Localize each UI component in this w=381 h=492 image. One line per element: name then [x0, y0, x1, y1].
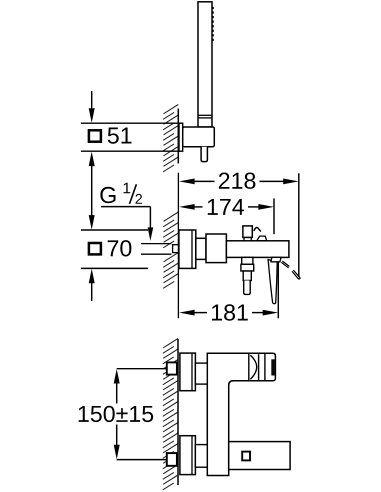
supply pipe in wall — [141, 244, 171, 255]
lever blade (closed position) — [268, 260, 277, 304]
dimension 150±15 stem and arrowheads — [114, 369, 120, 459]
bath spout — [229, 442, 290, 470]
lever pivot knuckle — [271, 257, 281, 261]
dimension 174 line — [194, 206, 260, 208]
G 1/2 leader line with arrow — [101, 207, 153, 241]
dimension text 174 — [208, 199, 244, 215]
dimension 174 extension line — [273, 198, 275, 234]
wall hatching (bottom view) — [163, 339, 178, 490]
dimension 218 line — [194, 180, 285, 182]
lever grip slot (black) — [271, 359, 275, 375]
shower holder bracket — [183, 127, 215, 147]
bottom escutcheon (side) — [180, 436, 196, 475]
top connection nut — [167, 362, 177, 374]
dimension 70: bottom extension line — [81, 267, 148, 269]
dimension 181 line — [194, 312, 264, 314]
wall hatching lower (middle view) — [163, 253, 178, 289]
top escutcheon (side) — [180, 353, 196, 391]
dimension 174 arrowheads — [179, 204, 195, 210]
lever base wedge — [257, 236, 267, 241]
dimension text 181 — [212, 304, 248, 320]
dimension 150±15 leader lines — [117, 369, 167, 460]
open lever segment 2 — [292, 270, 300, 279]
mixer main body (horizontal) — [226, 241, 289, 258]
dimension 70: top extension line — [81, 229, 148, 231]
wall hatching upper (middle view) — [163, 212, 178, 248]
dimension 51: top extension line — [81, 122, 180, 124]
wall face line (top view) — [177, 109, 179, 164]
escutcheon 70 square (side profile) — [179, 230, 196, 268]
wall face / extension line (middle view) — [177, 173, 179, 318]
dimension text 150±15 — [79, 406, 154, 422]
s-union cone — [196, 238, 206, 259]
dimension 181 extension line — [277, 262, 279, 318]
mixer body and top arm silhouette — [207, 353, 275, 475]
valve connection body — [206, 234, 226, 263]
lever internal line — [258, 354, 260, 380]
bottom s-union neck — [195, 445, 207, 468]
dimension 181 arrowheads — [179, 310, 195, 316]
dimension 51: bottom extension line — [81, 150, 180, 152]
top s-union neck — [195, 363, 207, 384]
cartridge end internal line — [248, 353, 250, 380]
dimension 218 extension line — [298, 173, 300, 277]
square symbol for 70 — [89, 243, 101, 254]
lever neck arc (end-on) — [250, 355, 256, 379]
wall hatching (top view) — [163, 105, 178, 172]
pipe nipple at wall — [173, 245, 179, 253]
spray nozzle dashes on shower face — [212, 7, 214, 41]
diverter knob stack below body — [241, 257, 254, 294]
lever hook curve — [254, 227, 261, 231]
bottom connection nut — [167, 453, 177, 466]
thread label G 1/2 — [100, 183, 142, 204]
hose connector stub below bracket — [201, 147, 207, 162]
dimension 51: upper arrow stem — [91, 91, 93, 111]
spout aerator square — [242, 452, 250, 461]
dimension text 218 — [219, 173, 256, 189]
dimension 218 arrowheads — [179, 179, 195, 185]
dimension 70: lower arrow stem — [89, 269, 95, 301]
dimension 51: upper arrowhead (down) — [89, 108, 95, 123]
lever end cap left edge — [264, 353, 266, 380]
dimension text 51 — [108, 128, 132, 144]
dimension text 70 — [108, 240, 132, 256]
square symbol for 51 — [89, 130, 101, 141]
open lever segment 1 — [281, 261, 289, 268]
dimension 51/70: shared middle stem with up+down arrowheads — [89, 152, 95, 230]
wall plate of holder (51 square, side view) — [179, 123, 183, 151]
cartridge cap on top — [243, 226, 252, 241]
hand shower handle — [198, 2, 212, 127]
wall face line (bottom view) — [177, 339, 179, 485]
